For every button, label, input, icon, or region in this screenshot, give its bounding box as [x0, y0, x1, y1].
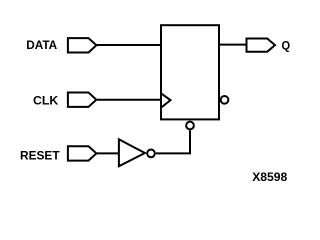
input terminal DATA — [68, 38, 97, 52]
input terminal RESET — [68, 146, 97, 160]
wire RESET to inverter input — [96, 152, 119, 154]
wire CLK to flip-flop clock input — [96, 99, 161, 101]
svg-text:CLK: CLK — [33, 93, 58, 107]
svg-text:Q: Q — [282, 38, 291, 52]
flip-flop U1 body — [161, 25, 219, 119]
svg-text:X8598: X8598 — [252, 170, 287, 184]
clock edge triangle on flip-flop — [161, 93, 171, 107]
flip-flop side bubble — [221, 96, 229, 104]
input terminal CLK — [68, 93, 97, 107]
wire flip-flop Q output — [219, 44, 247, 46]
inverter U2 triangle — [119, 139, 145, 166]
output terminal Q — [247, 39, 276, 52]
svg-text:RESET: RESET — [20, 148, 60, 162]
wire inverter output to flip-flop clear — [156, 130, 190, 153]
inverter U2 output bubble — [147, 150, 155, 158]
wire DATA to flip-flop D input — [96, 44, 161, 46]
svg-text:DATA: DATA — [26, 38, 57, 52]
flip-flop clear bubble — [186, 122, 194, 130]
